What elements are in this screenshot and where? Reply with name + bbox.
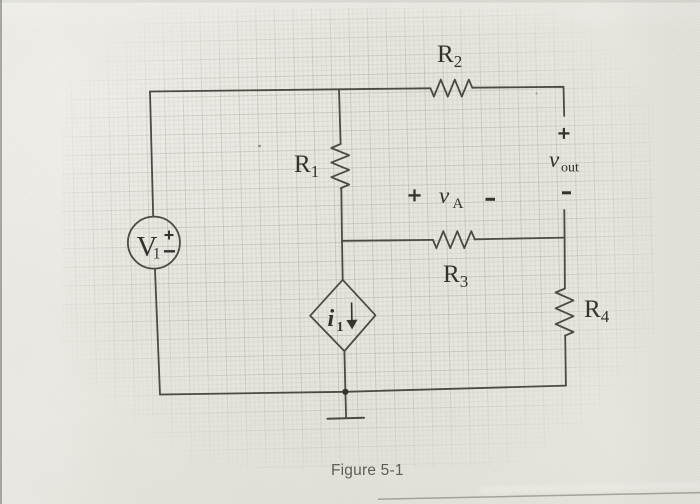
resistor R4 body — [556, 289, 574, 336]
wire R4 to bottom right corner — [564, 336, 567, 386]
resistor R1 body — [331, 144, 349, 188]
figure caption — [331, 462, 404, 480]
i1 arrow — [348, 303, 356, 328]
wire left: bottom corner up to V1 — [155, 269, 160, 394]
resistor R3 body — [433, 231, 475, 248]
resistor R2 body — [431, 80, 473, 97]
svg-text:R1: R1 — [294, 151, 319, 181]
svg-text:1: 1 — [337, 320, 344, 335]
vout minus sign — [562, 191, 571, 194]
svg-text:out: out — [561, 161, 579, 176]
svg-text:v: v — [549, 147, 560, 172]
svg-text:R3: R3 — [443, 261, 468, 291]
wire node A to current source — [341, 241, 344, 280]
wire R2 to vout plus terminal — [472, 87, 564, 116]
vA plus sign — [408, 189, 420, 201]
voltage source V1 circle — [128, 217, 180, 269]
svg-text:1: 1 — [153, 246, 161, 263]
wire R1 branch top — [339, 89, 341, 144]
svg-text:A: A — [453, 196, 464, 212]
svg-text:v: v — [439, 183, 450, 208]
dependent source i1 diamond — [310, 280, 375, 351]
wire top: left corner to R2 — [150, 88, 431, 91]
V1 plus sign — [165, 231, 174, 240]
wire V1 top to top-left corner — [150, 92, 153, 217]
wire bottom — [160, 386, 566, 395]
wire R3 to right branch — [475, 238, 565, 240]
junction dot — [342, 389, 348, 395]
ground stem — [344, 392, 347, 418]
svg-text:R2: R2 — [437, 41, 462, 71]
svg-text:R4: R4 — [584, 296, 610, 326]
wire vout minus terminal down to R3 node and R4 — [563, 210, 566, 289]
ground bar — [328, 418, 365, 419]
wire source to bottom junction — [344, 351, 345, 392]
dust speck — [258, 145, 261, 148]
svg-text:i: i — [328, 306, 335, 332]
bottom-right screen edge line — [378, 493, 700, 500]
vout plus sign — [558, 128, 569, 139]
dust speck — [535, 92, 537, 94]
vA minus sign — [486, 198, 496, 201]
V1 minus sign — [164, 250, 175, 252]
wire node A to R3 — [342, 239, 433, 242]
wire R1 to node A — [340, 188, 343, 241]
